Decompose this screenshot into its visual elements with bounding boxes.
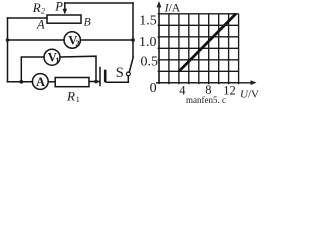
svg-text:U/V: U/V	[240, 89, 259, 101]
svg-text:S: S	[116, 65, 124, 81]
wire right bus upper	[132, 3, 134, 57]
wire left bus	[7, 18, 9, 82]
ammeter A	[32, 74, 48, 90]
svg-text:1: 1	[55, 55, 59, 65]
wire switch stub	[127, 76, 129, 82]
wire slider P to top wire	[64, 3, 66, 10]
svg-text:1.5: 1.5	[139, 14, 157, 29]
x axis arrowhead	[251, 80, 257, 85]
wire voltmeter V2 branch right	[80, 39, 133, 41]
switch S blade	[129, 57, 133, 72]
wire bottom left	[8, 81, 33, 83]
node junction right bus / V2	[131, 38, 135, 42]
svg-text:0: 0	[150, 81, 157, 96]
I-U characteristic line	[179, 14, 236, 72]
svg-text:R: R	[32, 0, 41, 15]
wire top horizontal	[65, 2, 133, 4]
graph axes	[156, 4, 251, 84]
wire R1 to battery	[89, 81, 99, 83]
svg-text:R: R	[66, 88, 75, 103]
slider arrow of rheostat	[63, 9, 68, 15]
svg-text:1.0: 1.0	[139, 35, 157, 50]
wire voltmeter V1 branch right	[60, 56, 96, 81]
svg-text:manfen5. c: manfen5. c	[186, 95, 226, 104]
voltmeter V2	[64, 32, 80, 48]
switch S contact circle	[126, 72, 130, 76]
resistor R1	[55, 78, 89, 87]
resistor R2 (rheostat body)	[47, 15, 81, 23]
x axis U	[156, 82, 251, 84]
graph grid	[158, 14, 239, 84]
wire battery to switch	[107, 81, 129, 83]
wire ammeter to R1	[48, 81, 55, 83]
y axis arrowhead	[157, 1, 162, 7]
wire rheostat A terminal to left bus	[8, 17, 48, 19]
svg-text:2: 2	[41, 7, 45, 16]
battery long plate	[99, 68, 101, 86]
svg-text:0.5: 0.5	[141, 55, 159, 70]
voltmeter V1	[44, 49, 60, 65]
node junction left bus / V2	[6, 38, 10, 42]
svg-text:B: B	[84, 17, 91, 29]
svg-text:2: 2	[75, 38, 79, 48]
svg-text:1: 1	[76, 95, 80, 104]
battery short plate	[104, 71, 107, 81]
svg-text:A: A	[36, 75, 45, 89]
svg-text:P: P	[54, 0, 63, 14]
wire voltmeter V2 branch left	[8, 39, 65, 41]
svg-text:I/A: I/A	[164, 2, 181, 14]
wire voltmeter V1 branch left	[21, 57, 44, 82]
node junction V1 right / battery	[94, 80, 98, 84]
y axis I	[158, 4, 160, 84]
svg-text:A: A	[36, 18, 45, 32]
node junction bottom left / V1	[19, 80, 23, 84]
